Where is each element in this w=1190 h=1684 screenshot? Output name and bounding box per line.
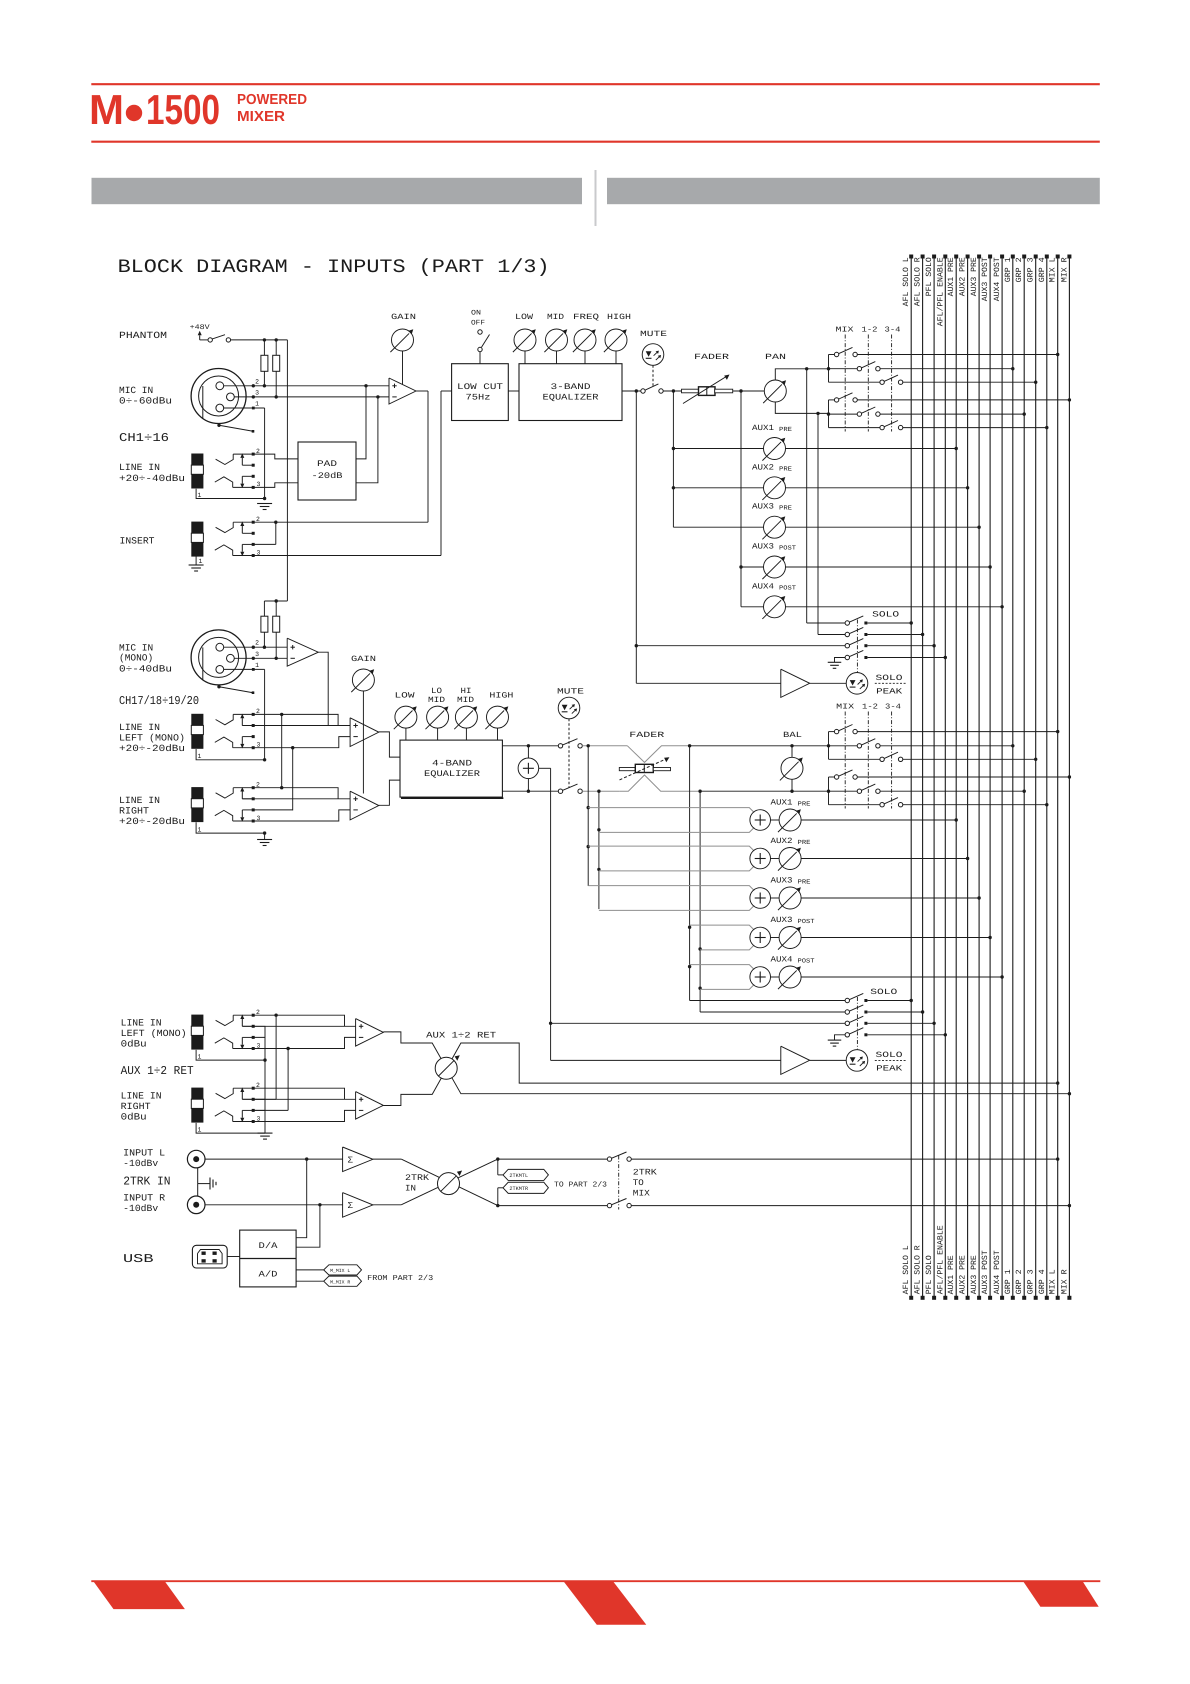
svg-text:AUX1 PRE: AUX1 PRE xyxy=(947,257,956,296)
bracket R normals to ground rail xyxy=(253,1098,265,1100)
summing mono for PFL xyxy=(527,746,529,758)
wire auxret R ring to amp xyxy=(233,1110,356,1121)
svg-text:1-2: 1-2 xyxy=(862,703,878,712)
gray banner right xyxy=(607,178,1100,204)
svg-text:1: 1 xyxy=(255,401,259,408)
svg-text:PAN: PAN xyxy=(765,353,786,362)
footer middle parallelogram xyxy=(563,1581,646,1625)
svg-text:RIGHT: RIGHT xyxy=(119,806,149,817)
svg-text:CH17/18÷19/20: CH17/18÷19/20 xyxy=(119,694,199,708)
wire insert return to low cut rail xyxy=(233,555,441,557)
connector XLR mic in CH1 xyxy=(191,369,246,424)
switch solo CH1 row 1 xyxy=(845,621,849,625)
connector jack aux ret LEFT xyxy=(191,1015,203,1027)
wire line R amp out to EQ xyxy=(379,780,400,805)
wire mono sum rail xyxy=(539,767,551,769)
svg-text:4-BAND: 4-BAND xyxy=(432,759,472,769)
amp sigma L xyxy=(343,1147,373,1172)
wires mix switch outputs CH1 xyxy=(857,354,1057,356)
svg-text:MID: MID xyxy=(547,313,564,322)
wire XLR pin2 to preamp xyxy=(224,385,389,387)
gang line solo CH1 xyxy=(856,620,858,673)
wire auxret L tip to amp xyxy=(233,1015,344,1026)
svg-text:GAIN: GAIN xyxy=(391,313,416,322)
wires mix switch outputs stereo xyxy=(857,731,1057,733)
svg-text:ON: ON xyxy=(471,310,481,318)
svg-text:GRP 4: GRP 4 xyxy=(1038,257,1047,282)
svg-text:3-4: 3-4 xyxy=(885,703,902,712)
wire fader R onward xyxy=(700,790,828,792)
svg-text:1: 1 xyxy=(198,826,202,833)
svg-text:EQUALIZER: EQUALIZER xyxy=(543,393,599,403)
svg-text:AUX2 PRE: AUX2 PRE xyxy=(959,257,968,296)
svg-text:PEAK: PEAK xyxy=(876,688,902,697)
wire XLR pin3 to preamp xyxy=(234,396,389,398)
bus MIX R xyxy=(1068,256,1070,1299)
svg-text:2: 2 xyxy=(255,640,259,647)
wire phantom rail to mono resistors xyxy=(264,600,287,602)
wire AUX1 PRE CH1 to bus xyxy=(786,448,957,450)
bus AFL SOLO R xyxy=(922,256,924,1299)
footer red rule xyxy=(91,1580,1100,1582)
svg-text:MIX R: MIX R xyxy=(1060,257,1069,282)
wire PAD out to pin3 node xyxy=(356,397,378,483)
svg-text:INPUT R: INPUT R xyxy=(123,1193,165,1204)
wire auxret L sleeve xyxy=(196,1050,265,1060)
svg-text:TO: TO xyxy=(633,1178,644,1188)
svg-text:MIX L: MIX L xyxy=(1049,257,1058,282)
wire L sleeve xyxy=(196,749,265,760)
block 3-BAND EQUALIZER xyxy=(519,364,622,421)
ground rail aux ret xyxy=(264,1037,266,1133)
svg-text:MIX R: MIX R xyxy=(1060,1269,1069,1294)
wire 2trk L to MIX L bus xyxy=(631,1158,1057,1160)
wire EQ L out to mute xyxy=(502,745,558,747)
svg-text:AFL/PFL ENABLE: AFL/PFL ENABLE xyxy=(936,257,945,326)
ground insert sleeve xyxy=(195,556,197,565)
svg-text:PRE: PRE xyxy=(779,465,792,472)
wire pfl tap CH1 xyxy=(635,391,637,683)
svg-text:AUX3 PRE: AUX3 PRE xyxy=(970,257,979,296)
svg-text:LINE IN: LINE IN xyxy=(119,462,160,473)
bus GRP 3 xyxy=(1035,256,1037,1299)
bus GRP 1 xyxy=(1012,256,1014,1299)
svg-text:1: 1 xyxy=(198,1126,202,1133)
pot GAIN CH1 xyxy=(392,329,414,351)
svg-text:FREQ: FREQ xyxy=(573,313,599,322)
wire fader L onward xyxy=(690,745,829,747)
svg-text:LEFT (MONO): LEFT (MONO) xyxy=(119,733,185,744)
switch solo stereo row 1 xyxy=(845,998,849,1002)
switch 2TRK TO MIX R xyxy=(607,1203,611,1207)
wire AUX2 PRE stereo to bus xyxy=(801,858,968,860)
svg-text:AUX3 POST: AUX3 POST xyxy=(981,257,990,301)
svg-text:GRP 1: GRP 1 xyxy=(1004,1269,1013,1294)
svg-text:2: 2 xyxy=(255,378,259,385)
gray banner left xyxy=(92,178,583,204)
svg-text:MIX: MIX xyxy=(633,1189,650,1199)
wire AUX4 POST CH1 to bus xyxy=(786,606,1003,608)
wire 2trk R to sum amp xyxy=(205,1204,343,1206)
svg-text:LOW: LOW xyxy=(395,692,415,701)
svg-text:LINE IN: LINE IN xyxy=(119,795,160,806)
switch solo stereo row 3 xyxy=(845,1021,849,1025)
svg-text:PHANTOM: PHANTOM xyxy=(119,330,167,341)
flag 2TKMTL xyxy=(497,1159,499,1175)
svg-text:AUX2 PRE: AUX2 PRE xyxy=(959,1255,968,1294)
svg-text:AFL SOLO L: AFL SOLO L xyxy=(902,1245,911,1294)
svg-text:3: 3 xyxy=(255,651,259,658)
connector RCA input L xyxy=(187,1150,205,1168)
bus AFL/PFL ENABLE xyxy=(944,256,946,1299)
svg-text:AFL SOLO R: AFL SOLO R xyxy=(914,1245,923,1294)
svg-text:AUX1: AUX1 xyxy=(752,424,774,433)
wire auxret L ring to amp xyxy=(233,1037,356,1048)
wire mute R to fader xyxy=(582,790,619,792)
wire usb to codec xyxy=(227,1256,240,1258)
svg-text:BAL: BAL xyxy=(783,731,802,740)
wire AUX3 POST stereo to bus xyxy=(801,937,990,939)
svg-text:IN: IN xyxy=(405,1184,416,1194)
switch MUTE stereo L xyxy=(558,744,562,748)
ground rca shield xyxy=(197,1168,199,1184)
block LOW CUT 75Hz xyxy=(452,364,509,421)
gray banner divider xyxy=(595,170,597,226)
svg-text:1: 1 xyxy=(198,753,202,760)
svg-text:FADER: FADER xyxy=(629,731,664,740)
svg-text:AFL SOLO L: AFL SOLO L xyxy=(902,257,911,306)
amp solo buffer stereo xyxy=(551,1059,781,1061)
wire low cut to eq xyxy=(508,390,519,392)
svg-text:2TKMTL: 2TKMTL xyxy=(509,1173,528,1179)
svg-text:FROM PART 2/3: FROM PART 2/3 xyxy=(367,1274,434,1283)
gang line 2trk xyxy=(618,1156,620,1210)
connector jack aux ret RIGHT xyxy=(191,1088,203,1100)
svg-text:2TRK IN: 2TRK IN xyxy=(123,1175,170,1189)
bus AUX4 POST xyxy=(1001,256,1003,1299)
block D/A A/D codec xyxy=(240,1230,296,1287)
svg-text:MIXER: MIXER xyxy=(237,109,286,125)
connector RCA input R xyxy=(187,1196,205,1214)
wire D/A L out xyxy=(296,1159,307,1238)
svg-text:LEFT (MONO): LEFT (MONO) xyxy=(121,1028,187,1039)
svg-text:+48V: +48V xyxy=(190,324,211,332)
connector jack LINE IN LEFT (MONO) xyxy=(191,714,203,726)
svg-text:A/D: A/D xyxy=(259,1270,278,1280)
connector XLR mic in mono xyxy=(191,630,246,685)
op-amp aux ret L xyxy=(356,1019,384,1047)
svg-text:1500: 1500 xyxy=(146,86,220,133)
svg-text:PFL SOLO: PFL SOLO xyxy=(925,257,934,296)
connector USB xyxy=(192,1245,227,1268)
switch solo CH1 row 2 xyxy=(845,632,849,636)
pot GAIN mono xyxy=(352,669,374,691)
switch MUTE stereo R xyxy=(558,789,562,793)
wire mono preamp out to L jack normal xyxy=(318,652,328,725)
svg-text:AUX3 POST: AUX3 POST xyxy=(981,1250,990,1294)
wire auxret R tip to amp xyxy=(233,1088,344,1099)
resistor R phantom pin2 xyxy=(263,340,265,355)
switch group MIX/GRP stereo upper xyxy=(828,732,830,760)
svg-text:3-BAND: 3-BAND xyxy=(551,382,591,392)
flag M_MIX L xyxy=(324,1265,362,1275)
aux send rails CH1 xyxy=(672,391,674,527)
ground aux ret xyxy=(258,1132,273,1134)
op-amp aux ret R xyxy=(356,1092,384,1120)
resistor R phantom pin3 xyxy=(275,340,277,355)
wire AUX1 PRE stereo to bus xyxy=(801,819,956,821)
link rail to R ring normal xyxy=(253,809,293,811)
wire preamp out to insert send rail xyxy=(416,390,428,392)
svg-text:AUX 1÷2 RET: AUX 1÷2 RET xyxy=(121,1064,194,1078)
op-amp mic preamp CH1 xyxy=(389,378,416,404)
svg-text:MUTE: MUTE xyxy=(557,688,584,697)
switch solo CH1 row 3 xyxy=(845,644,849,648)
wire 2trk R to switch xyxy=(498,1205,608,1207)
svg-text:LO: LO xyxy=(431,687,442,696)
svg-text:(MONO): (MONO) xyxy=(119,653,153,664)
op-amp mic preamp mono xyxy=(287,638,318,666)
wire AUX3 PRE CH1 to bus xyxy=(786,526,980,528)
wire 2trk R to MIX R bus xyxy=(631,1205,1069,1207)
svg-text:SOLO: SOLO xyxy=(876,674,903,683)
svg-text:2TRK: 2TRK xyxy=(405,1173,430,1183)
svg-text:0÷-40dBu: 0÷-40dBu xyxy=(119,664,172,675)
svg-text:+20÷-20dBu: +20÷-20dBu xyxy=(119,743,185,754)
svg-text:POST: POST xyxy=(779,545,796,552)
svg-text:LOW CUT: LOW CUT xyxy=(457,382,503,392)
svg-text:HIGH: HIGH xyxy=(489,692,513,701)
svg-text:+20÷-20dBu: +20÷-20dBu xyxy=(119,816,185,827)
amp solo buffer CH1 xyxy=(636,682,781,684)
block PAD -20dB xyxy=(298,442,356,500)
bus AUX3 PRE xyxy=(978,256,980,1299)
wire D/A R out xyxy=(296,1205,320,1247)
svg-text:OFF: OFF xyxy=(471,320,485,328)
svg-text:1: 1 xyxy=(199,558,203,565)
switch group MIX/GRP stereo lower xyxy=(828,777,830,805)
header top red rule xyxy=(91,83,1100,85)
svg-text:MIC IN: MIC IN xyxy=(119,385,153,396)
wire XLR pin1 to ground rail xyxy=(224,407,265,409)
wire 2trk L to sum amp xyxy=(205,1158,343,1160)
bus GRP 4 xyxy=(1046,256,1048,1299)
wire A/D R in from flag xyxy=(296,1280,324,1282)
switch solo stereo row 2 xyxy=(845,1010,849,1014)
amp sigma R xyxy=(343,1193,373,1218)
svg-text:BLOCK DIAGRAM - INPUTS (PART 1: BLOCK DIAGRAM - INPUTS (PART 1/3) xyxy=(118,256,550,278)
svg-text:PRE: PRE xyxy=(798,879,811,886)
svg-text:3-4: 3-4 xyxy=(885,326,902,335)
wire line ring to PAD xyxy=(233,483,298,488)
wire insert bypass xyxy=(275,522,277,544)
led MUTE stereo xyxy=(558,697,580,719)
connector jack LINE IN CH1 xyxy=(191,454,203,466)
svg-text:RIGHT: RIGHT xyxy=(121,1101,151,1112)
wire line tip to PAD xyxy=(233,454,298,459)
switch solo stereo row 4 xyxy=(845,1033,849,1037)
svg-text:AUX4: AUX4 xyxy=(771,956,793,965)
link rail L-R tip xyxy=(281,714,283,787)
svg-text:AUX1: AUX1 xyxy=(771,799,793,808)
wire mute L to fader xyxy=(582,745,627,747)
wire line sleeve to ground xyxy=(196,489,265,499)
svg-text:1-2: 1-2 xyxy=(862,326,878,335)
svg-text:M: M xyxy=(89,86,124,133)
resistor R phantom mono pin2 xyxy=(263,601,265,616)
svg-text:GRP 2: GRP 2 xyxy=(1015,1269,1024,1294)
svg-text:D/A: D/A xyxy=(259,1241,279,1251)
svg-text:3: 3 xyxy=(255,389,259,396)
flag 2TKMTR xyxy=(497,1188,499,1206)
wire AUX2 PRE CH1 to bus xyxy=(786,487,968,489)
svg-text:M_MIX R: M_MIX R xyxy=(330,1279,350,1285)
wire 2trk L to switch xyxy=(498,1158,608,1160)
svg-text:1: 1 xyxy=(198,492,202,499)
svg-text:POST: POST xyxy=(798,918,815,925)
svg-text:MID: MID xyxy=(457,696,474,705)
ground stereo line sleeve xyxy=(264,833,266,839)
svg-text:FADER: FADER xyxy=(694,353,729,362)
svg-text:PRE: PRE xyxy=(798,801,811,808)
svg-text:USB: USB xyxy=(123,1252,154,1266)
wire mute to fader xyxy=(663,390,681,392)
svg-text:SOLO: SOLO xyxy=(870,988,897,997)
svg-text:CH1÷16: CH1÷16 xyxy=(119,431,169,445)
svg-text:-10dBv: -10dBv xyxy=(123,1203,158,1214)
svg-text:1: 1 xyxy=(198,1054,202,1061)
svg-text:AUX2: AUX2 xyxy=(771,837,793,846)
switch MUTE CH1 xyxy=(641,389,645,393)
svg-text:PRE: PRE xyxy=(779,505,792,512)
ground solo reference CH1 xyxy=(835,658,846,663)
bus AUX2 PRE xyxy=(967,256,969,1299)
svg-text:Σ: Σ xyxy=(348,1201,354,1211)
svg-text:AUX4 POST: AUX4 POST xyxy=(993,1250,1002,1294)
svg-text:POST: POST xyxy=(779,584,796,591)
svg-text:GRP 3: GRP 3 xyxy=(1027,1269,1036,1294)
svg-text:0dBu: 0dBu xyxy=(121,1112,147,1123)
bus GRP 2 xyxy=(1023,256,1025,1299)
svg-text:AUX3 PRE: AUX3 PRE xyxy=(970,1255,979,1294)
aux rails stereo post xyxy=(689,746,691,1001)
ground line-in sleeve xyxy=(257,503,272,505)
svg-text:PEAK: PEAK xyxy=(876,1065,902,1074)
bus PFL SOLO xyxy=(933,256,935,1299)
op-amp line L xyxy=(350,718,379,747)
svg-text:GRP 4: GRP 4 xyxy=(1038,1269,1047,1294)
svg-text:AFL SOLO R: AFL SOLO R xyxy=(914,257,923,306)
phantom switch xyxy=(208,338,212,342)
block 4-BAND EQUALIZER xyxy=(400,740,502,797)
wire pan top to mix switches xyxy=(775,369,828,380)
wire EQ R out to mute xyxy=(502,790,558,792)
svg-text:AUX3: AUX3 xyxy=(752,503,774,512)
svg-text:MIX: MIX xyxy=(836,327,855,335)
wire R sleeve xyxy=(196,822,265,833)
svg-text:M_MIX L: M_MIX L xyxy=(330,1268,350,1274)
connector jack LINE IN RIGHT xyxy=(191,787,203,799)
svg-text:INSERT: INSERT xyxy=(120,536,155,547)
wire auxret R sleeve to ground xyxy=(196,1123,265,1133)
svg-text:GRP 3: GRP 3 xyxy=(1027,257,1036,282)
svg-text:PFL SOLO: PFL SOLO xyxy=(925,1255,934,1294)
svg-text:LINE IN: LINE IN xyxy=(121,1018,162,1029)
svg-text:GAIN: GAIN xyxy=(351,655,376,664)
svg-text:AUX2: AUX2 xyxy=(752,463,774,472)
wire AUX3 POST CH1 to bus xyxy=(786,566,991,568)
wire mono XLR pin3 to preamp xyxy=(234,657,287,659)
wire PAD out to pin2 node xyxy=(356,386,366,459)
led MUTE CH1 xyxy=(642,344,664,366)
svg-text:AUX3: AUX3 xyxy=(771,877,793,886)
bus MIX L xyxy=(1057,256,1059,1299)
led SOLO PEAK stereo xyxy=(846,1050,868,1072)
connector jack INSERT CH1 xyxy=(191,522,203,534)
svg-text:AUX4 POST: AUX4 POST xyxy=(993,257,1002,301)
svg-text:EQUALIZER: EQUALIZER xyxy=(424,769,480,779)
footer right parallelogram xyxy=(1023,1581,1099,1607)
svg-text:MIX: MIX xyxy=(836,704,855,712)
switch solo CH1 row 4 xyxy=(845,655,849,659)
svg-text:Σ: Σ xyxy=(348,1156,354,1166)
flag M_MIX R xyxy=(324,1276,362,1286)
wire insert send xyxy=(233,521,428,523)
led SOLO PEAK CH1 xyxy=(846,673,868,695)
svg-text:AUX3: AUX3 xyxy=(771,916,793,925)
op-amp line R xyxy=(350,791,379,820)
svg-text:POWERED: POWERED xyxy=(237,92,307,108)
wire L tip to amp xyxy=(233,714,338,725)
wire mono XLR pin1 to ground rail xyxy=(224,668,265,670)
svg-text:0÷-60dBu: 0÷-60dBu xyxy=(119,396,172,407)
switch group MIX/GRP CH1 lower xyxy=(828,400,830,428)
svg-text:LINE IN: LINE IN xyxy=(119,722,160,733)
header bottom red rule xyxy=(91,141,1100,143)
link rail L-R ring xyxy=(292,748,294,811)
svg-text:MUTE: MUTE xyxy=(640,330,667,339)
wire insert return to LOW CUT in xyxy=(441,390,452,392)
wire R ring to amp xyxy=(233,810,350,821)
svg-text:INPUT L: INPUT L xyxy=(123,1148,165,1159)
mix bus vertical lines with terminals xyxy=(902,255,913,1300)
svg-text:POST: POST xyxy=(798,958,815,965)
wire R tip to amp xyxy=(233,788,338,799)
svg-text:0dBu: 0dBu xyxy=(121,1039,147,1050)
svg-text:MIX L: MIX L xyxy=(1049,1269,1058,1294)
gang line solo stereo xyxy=(856,997,858,1049)
svg-text:+20÷-40dBu: +20÷-40dBu xyxy=(119,473,185,484)
svg-text:2TRK: 2TRK xyxy=(633,1168,658,1178)
svg-text:SOLO: SOLO xyxy=(876,1051,903,1060)
bus AFL SOLO L xyxy=(910,256,912,1299)
svg-text:PRE: PRE xyxy=(798,839,811,846)
bus AUX3 POST xyxy=(989,256,991,1299)
svg-text:1: 1 xyxy=(255,662,259,669)
svg-text:HIGH: HIGH xyxy=(607,313,631,322)
bus AUX1 PRE xyxy=(955,256,957,1299)
svg-text:AUX1 PRE: AUX1 PRE xyxy=(947,1255,956,1294)
wire mono XLR pin2 to preamp xyxy=(224,646,288,648)
svg-text:LOW: LOW xyxy=(515,313,533,322)
wire A/D L in from flag xyxy=(296,1269,324,1271)
svg-text:AUX4: AUX4 xyxy=(752,582,774,591)
ground-normal bracket L xyxy=(253,1026,265,1037)
svg-text:AUX 1÷2 RET: AUX 1÷2 RET xyxy=(426,1031,496,1041)
svg-text:GRP 1: GRP 1 xyxy=(1004,257,1013,282)
svg-text:PAD: PAD xyxy=(317,459,337,469)
wire pan bottom to mix switches xyxy=(775,402,828,413)
